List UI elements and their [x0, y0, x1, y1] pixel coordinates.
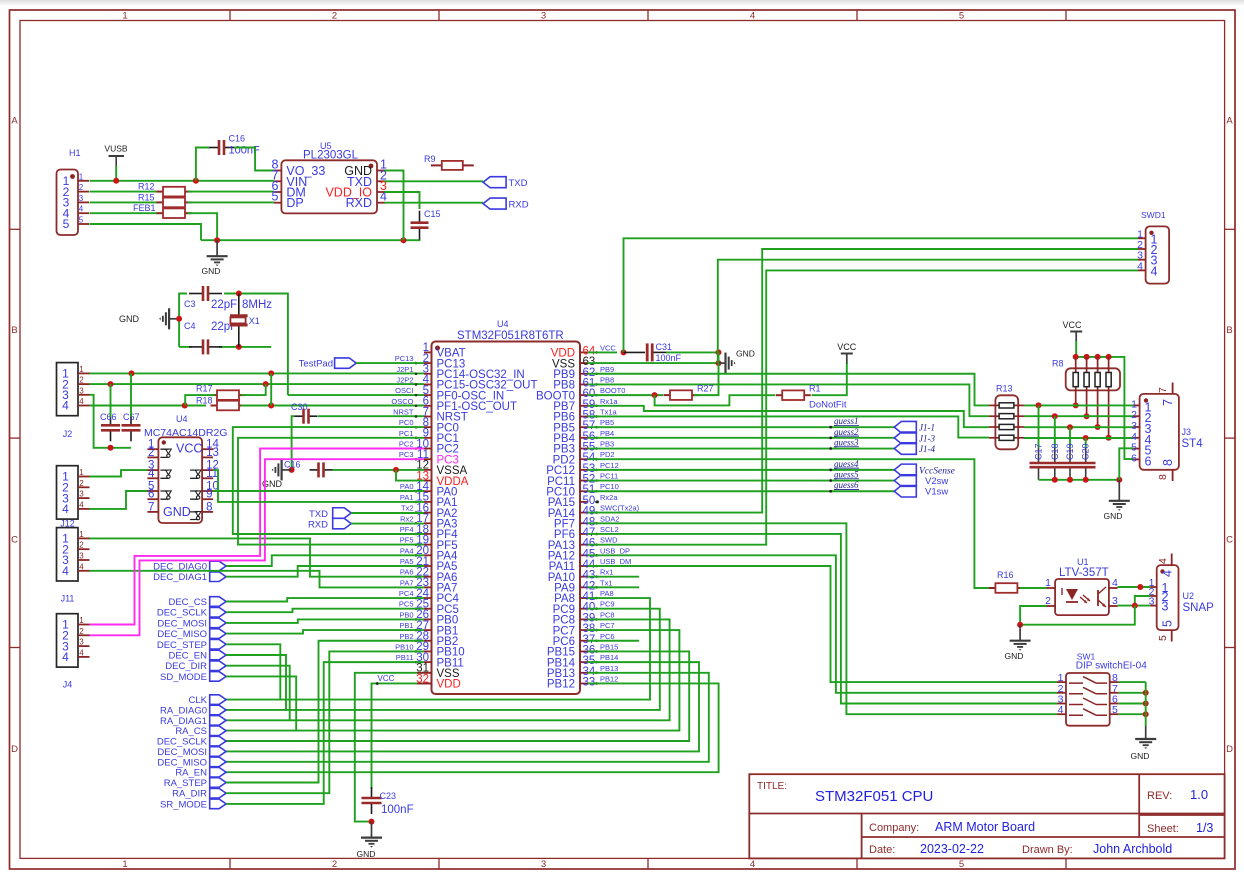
- junction cap rail j right: [1116, 477, 1122, 483]
- svg-text:C20: C20: [1081, 443, 1091, 460]
- wire bus pin38: [226, 630, 679, 731]
- svg-text:100nF: 100nF: [381, 804, 414, 816]
- wire J2.2 to MCU J2P2: [90, 383, 425, 385]
- wire VSS pin63: [588, 362, 719, 364]
- svg-text:4: 4: [1112, 577, 1118, 589]
- wire PB4 to flag: [588, 437, 895, 439]
- IC U1 LTV-357T: [1055, 579, 1109, 615]
- pin U4-9 PC1: [424, 437, 432, 439]
- pin U5 right 3: [377, 191, 385, 193]
- svg-text:BOOT0: BOOT0: [600, 386, 625, 395]
- svg-text:A: A: [11, 116, 18, 127]
- junction r8 bottom j2: [1084, 413, 1090, 419]
- svg-text:PC1: PC1: [399, 429, 414, 438]
- wire R13.2 to ST4.2: [1024, 415, 1134, 417]
- pin U2-1: [1150, 586, 1157, 588]
- frame row ticks left: [10, 228, 21, 230]
- svg-text:MC74AC14DR2G: MC74AC14DR2G: [144, 427, 227, 439]
- svg-text:RA_DIAG0: RA_DIAG0: [160, 705, 207, 716]
- pin U4-53 PC12: [580, 469, 588, 471]
- pin J12-3: [78, 497, 90, 499]
- resistor R17: [196, 384, 246, 400]
- svg-text:SCL2: SCL2: [600, 525, 619, 534]
- svg-text:2: 2: [79, 627, 84, 636]
- pin J2-1: [78, 372, 90, 374]
- svg-text:R9: R9: [424, 154, 436, 164]
- svg-text:1: 1: [79, 530, 84, 539]
- svg-text:PF4: PF4: [400, 525, 414, 534]
- svg-text:DEC_DIAG1: DEC_DIAG1: [153, 572, 207, 583]
- wire DEC_SCLK wire: [226, 609, 424, 612]
- svg-text:OSCI: OSCI: [395, 386, 413, 395]
- svg-text:ST4: ST4: [1182, 438, 1204, 450]
- svg-text:RXD: RXD: [509, 200, 529, 211]
- frame column ticks bottom: [229, 858, 231, 869]
- svg-text:J3: J3: [1182, 427, 1192, 437]
- pin U4-29 PB10: [424, 650, 432, 652]
- title block: [749, 774, 1224, 858]
- junction BOOT0 junction: [652, 392, 658, 398]
- junction r8 top j3: [1095, 354, 1101, 360]
- svg-text:R13: R13: [996, 384, 1013, 394]
- svg-text:TITLE:: TITLE:: [757, 781, 787, 792]
- svg-text:R1: R1: [809, 384, 821, 394]
- pin U4-51 PC10: [580, 490, 588, 492]
- svg-text:DEC_MISO: DEC_MISO: [157, 757, 207, 768]
- flag DEC_MISO: [210, 757, 226, 767]
- wire PC0 jog: [233, 427, 424, 534]
- svg-text:PC7: PC7: [600, 621, 615, 630]
- junction VCC C31 junction: [621, 349, 627, 355]
- wire J2.3 to cap rail: [90, 395, 132, 448]
- junction VUSB junction: [113, 178, 119, 184]
- capacitor C67: [122, 414, 141, 441]
- svg-text:J11: J11: [61, 594, 75, 604]
- pin J12-1: [78, 476, 90, 478]
- connector U2 SNAP: [1157, 565, 1179, 630]
- svg-text:4: 4: [79, 500, 84, 509]
- svg-text:PA0: PA0: [400, 482, 414, 491]
- svg-text:guess5: guess5: [834, 470, 859, 480]
- pin U4-45 PA12: [580, 554, 588, 556]
- wire bus pin40: [226, 609, 660, 710]
- pin J12-2: [78, 486, 90, 488]
- capacitor C16b: [310, 462, 333, 477]
- junction u2 j1: [1137, 584, 1143, 590]
- pin U4-48 PF7: [580, 522, 588, 524]
- flag DEC_DIAG1: [210, 572, 226, 582]
- svg-text:J1-1: J1-1: [919, 423, 935, 433]
- wire VDD pin32 to C23: [372, 683, 425, 789]
- flag DEC_EN: [210, 650, 226, 660]
- svg-text:U4: U4: [176, 414, 188, 424]
- ground GND vssa: [272, 459, 292, 480]
- pin J4-2: [78, 634, 90, 636]
- wire C31 right to GND: [666, 351, 719, 353]
- pin SW1-4: [1057, 713, 1066, 715]
- pin J4-3: [78, 645, 90, 647]
- capacitor C20: [1085, 438, 1087, 448]
- svg-text:PA4: PA4: [400, 546, 414, 555]
- wire row0 to flag: [588, 469, 895, 471]
- ground GND sw1: [1131, 726, 1157, 761]
- svg-text:PB8: PB8: [600, 375, 614, 384]
- wire DIAG0 to PA4: [226, 555, 424, 566]
- power VCC r8: [1062, 320, 1082, 342]
- pin U4-62 PB9: [580, 373, 588, 375]
- wire bus pin35: [226, 662, 699, 751]
- wire TestPad to PC13: [356, 362, 424, 364]
- svg-text:PB2: PB2: [399, 632, 413, 641]
- pin J2-2: [78, 383, 90, 385]
- wire RXD to Rx2: [351, 523, 424, 525]
- pin U4-3 PC14-OSC32_IN: [424, 373, 432, 375]
- capacitor C3: [189, 286, 222, 301]
- svg-text:V1sw: V1sw: [925, 487, 948, 498]
- svg-text:4: 4: [1161, 570, 1175, 577]
- pin U4-43 PA10: [580, 576, 588, 578]
- pin U4-18 PF4: [424, 533, 432, 535]
- wire SCL2 to SW1.3: [588, 534, 1058, 704]
- svg-text:VCC: VCC: [837, 342, 857, 352]
- svg-text:C30: C30: [291, 402, 308, 412]
- pin SWD1-4: [1138, 269, 1146, 271]
- svg-text:PB11: PB11: [396, 653, 414, 662]
- wire Rx1: [588, 576, 640, 578]
- pin U4-52 PC11: [580, 480, 588, 482]
- junction sw1 j2: [1143, 701, 1149, 707]
- wire bus pin41: [226, 598, 650, 700]
- svg-text:DEC_STEP: DEC_STEP: [157, 640, 207, 651]
- pin U4-6 PF1-OSC_OUT: [424, 405, 432, 407]
- svg-text:J4: J4: [63, 680, 73, 690]
- svg-text:VCC: VCC: [1062, 320, 1082, 330]
- svg-text:PA1: PA1: [400, 493, 414, 502]
- capacitor C66: [101, 414, 120, 441]
- wire R17 left: [185, 395, 215, 405]
- svg-text:SDA2: SDA2: [600, 514, 620, 523]
- flag RA_EN: [210, 767, 226, 777]
- svg-text:GND: GND: [1104, 511, 1123, 521]
- wire R12 to U5 DM: [188, 191, 274, 193]
- pin J3-7: [1172, 383, 1174, 394]
- wire SD_MODE wire: [226, 676, 296, 730]
- svg-text:C23: C23: [380, 791, 397, 801]
- junction J2P1 j1: [129, 370, 135, 376]
- flag J1-4: [894, 443, 916, 455]
- ground GND c23: [357, 822, 382, 859]
- flag DEC_SCLK: [210, 736, 226, 746]
- pin U4-16 PA2: [424, 512, 432, 514]
- wire VSS pin31 to gnd: [355, 673, 424, 822]
- pin U4inv-5: [147, 490, 158, 492]
- wire DIAG1 to PA5: [226, 566, 424, 577]
- junction gnd31 j2: [716, 360, 722, 366]
- pin U4-12 VSSA: [424, 469, 432, 471]
- pin U4-61 PB8: [580, 383, 588, 385]
- svg-text:SWD: SWD: [600, 536, 618, 545]
- pin U4-55 PB3: [580, 448, 588, 450]
- junction C16 left junction: [193, 178, 199, 184]
- svg-text:4: 4: [79, 562, 84, 571]
- svg-text:PB13: PB13: [600, 664, 618, 673]
- svg-text:3: 3: [79, 194, 84, 203]
- svg-text:3: 3: [79, 490, 84, 499]
- junction GND rail junction 2: [401, 237, 407, 243]
- svg-text:33: 33: [583, 676, 596, 688]
- pin U1-3: [1109, 605, 1118, 607]
- svg-text:2: 2: [332, 11, 337, 22]
- wire R17 right: [241, 384, 266, 395]
- wire U5 GND to rail: [385, 171, 404, 241]
- junction cap rail j: [1052, 477, 1058, 483]
- svg-text:SNAP: SNAP: [1183, 602, 1215, 614]
- svg-text:1: 1: [79, 172, 84, 181]
- svg-text:H1: H1: [69, 148, 81, 158]
- svg-text:OSCO: OSCO: [391, 397, 413, 406]
- svg-text:PC9: PC9: [600, 600, 615, 609]
- svg-text:CLK: CLK: [189, 695, 208, 706]
- svg-text:1: 1: [79, 616, 84, 625]
- pin U4inv-8: [202, 511, 213, 513]
- pin U4-24 PC4: [424, 597, 432, 599]
- flag V2sw: [894, 475, 916, 487]
- svg-text:PC11: PC11: [600, 472, 618, 481]
- wire R1 right to VCC: [812, 363, 847, 395]
- svg-text:DIP switchEI-04: DIP switchEI-04: [1076, 661, 1147, 672]
- wire Tx1a: [588, 416, 990, 437]
- wire bus pin36: [226, 651, 689, 741]
- pin J3-3: [1134, 426, 1140, 428]
- svg-text:J2: J2: [63, 429, 73, 439]
- resistor R15: [138, 192, 192, 207]
- svg-text:7: 7: [1161, 399, 1175, 406]
- flag DEC_MOSI: [210, 618, 226, 628]
- pin U4-21 PA5: [424, 565, 432, 567]
- svg-text:VUSB: VUSB: [104, 144, 127, 154]
- svg-text:R27: R27: [697, 384, 714, 394]
- wire R27 right: [694, 363, 719, 395]
- pin H1-5: [78, 223, 89, 225]
- pin J11-3: [78, 559, 90, 561]
- svg-text:DEC_MOSI: DEC_MOSI: [157, 747, 207, 758]
- wire PC1 jog: [238, 438, 424, 545]
- svg-text:C3: C3: [184, 299, 196, 309]
- capacitor C4: [189, 339, 222, 354]
- wire J11.1 to PA6: [90, 538, 425, 576]
- svg-text:J1-3: J1-3: [919, 433, 935, 443]
- wire gnd31 link: [718, 352, 720, 363]
- svg-text:3: 3: [79, 386, 84, 395]
- U1 optocoupler internals: [1062, 587, 1106, 607]
- svg-text:DEC_SCLK: DEC_SCLK: [157, 737, 208, 748]
- pin U4-63 VSS: [580, 362, 588, 364]
- junction xtal-osco junction: [268, 403, 274, 409]
- svg-text:U4: U4: [497, 319, 509, 329]
- wire PB8 to R13.2: [588, 384, 990, 416]
- svg-text:2: 2: [79, 479, 84, 488]
- junction r8 top j4: [1106, 354, 1112, 360]
- wire J12.4 to U4B.5: [90, 491, 148, 509]
- ground GND usb: [202, 240, 228, 276]
- connector SWD1: [1146, 226, 1170, 283]
- wire DEC_MOSI wire: [226, 619, 424, 623]
- pin U4-60 BOOT0: [580, 394, 588, 396]
- pin U4-5 PF0-OSC_IN: [424, 394, 432, 396]
- svg-text:Rx2: Rx2: [400, 514, 413, 523]
- pin H1-1: [78, 180, 89, 182]
- svg-text:DEC_MOSI: DEC_MOSI: [157, 618, 207, 629]
- capacitor C18: [1054, 416, 1056, 447]
- pin U1-1: [1047, 587, 1056, 589]
- wire TXD to Tx2: [351, 512, 424, 514]
- svg-text:C: C: [11, 535, 18, 546]
- pin U5 right 1: [377, 170, 385, 172]
- wire DEC_EN wire: [226, 655, 286, 710]
- junction J2P2 j1: [108, 381, 114, 387]
- pin U1-2: [1047, 605, 1056, 607]
- flag VccSense: [894, 464, 916, 476]
- wire SW1.8 wire: [1119, 681, 1146, 683]
- wire PB5 to flag: [588, 426, 895, 428]
- wire R13.3 to ST4.3: [1024, 426, 1134, 428]
- wire C16b to VSSA: [333, 469, 425, 471]
- wire BOOT0 to R1: [655, 395, 775, 405]
- capacitor C16: [209, 140, 234, 155]
- gate glyph: [160, 491, 168, 499]
- IC U4 STM32F051R8T6TR: [432, 342, 581, 695]
- svg-text:U1: U1: [1077, 557, 1089, 567]
- svg-text:PB9: PB9: [600, 365, 614, 374]
- svg-text:C66: C66: [100, 412, 117, 422]
- svg-text:4: 4: [1058, 704, 1064, 716]
- wire VDDA jog: [396, 470, 424, 481]
- flag RA_DIR: [210, 788, 226, 798]
- pin SW1-8: [1110, 681, 1119, 683]
- junction u2 j2: [1132, 603, 1138, 609]
- wire J4.2 pink: [90, 459, 425, 635]
- resistor R1: [776, 384, 821, 401]
- wire VCC up to SWD1: [624, 238, 1139, 352]
- pin J4-1: [78, 624, 90, 626]
- svg-text:RXD: RXD: [346, 196, 372, 210]
- capacitor C23: [362, 787, 382, 814]
- wire SW1 gnd vertical: [1145, 682, 1147, 726]
- svg-text:4: 4: [750, 859, 755, 870]
- pin SW1-1: [1057, 681, 1066, 683]
- svg-text:4: 4: [1137, 260, 1143, 272]
- svg-text:R15: R15: [138, 192, 155, 202]
- svg-text:4: 4: [1157, 558, 1169, 564]
- resistor R8.1: [1075, 357, 1077, 373]
- pin U4-28 PB2: [424, 640, 432, 642]
- wire U5 TXD to flag: [385, 180, 484, 182]
- svg-text:DEC_CS: DEC_CS: [168, 597, 207, 608]
- svg-text:PA8: PA8: [600, 589, 614, 598]
- svg-text:guess3: guess3: [834, 438, 859, 448]
- svg-text:3: 3: [1112, 595, 1118, 607]
- wire SW1.6 wire: [1119, 703, 1146, 705]
- flag TXD: [483, 177, 506, 188]
- frame row ticks right: [1225, 228, 1235, 230]
- pin U4-27 PB1: [424, 629, 432, 631]
- svg-text:C16: C16: [284, 460, 301, 470]
- wire OSCI row: [288, 394, 424, 396]
- pin U4-47 PF6: [580, 533, 588, 535]
- svg-text:2: 2: [332, 859, 337, 870]
- resistor R12: [138, 182, 192, 197]
- ground GND st4: [1104, 480, 1130, 521]
- wire SDA2 to SW1.4: [588, 523, 1058, 714]
- flag J1-3: [894, 432, 916, 444]
- pin U4-31 VSS: [424, 672, 432, 674]
- svg-text:Sheet:: Sheet:: [1147, 823, 1179, 835]
- resistor R13.1: [989, 404, 999, 406]
- svg-text:GND: GND: [163, 505, 191, 519]
- switch element 3: [1069, 698, 1107, 705]
- svg-text:C: C: [1226, 535, 1233, 546]
- pin U4-36 PB15: [580, 650, 588, 652]
- pin U4-8 PC0: [424, 426, 432, 428]
- power VCC r1: [837, 342, 857, 364]
- pin U2-5: [1171, 630, 1173, 641]
- wire USB_DM to SW1.1: [588, 566, 1058, 682]
- pin U4inv-1: [147, 448, 158, 450]
- junction r8 top j2: [1084, 354, 1090, 360]
- wire SR_MODE wire: [226, 662, 424, 804]
- svg-text:X1: X1: [249, 316, 260, 326]
- IC U4 MC74AC14DR2G: [158, 437, 202, 523]
- wire C66 top: [110, 384, 112, 417]
- svg-text:PB10: PB10: [395, 642, 413, 651]
- svg-text:5: 5: [959, 11, 964, 22]
- svg-text:V2sw: V2sw: [925, 476, 948, 487]
- svg-text:VccSense: VccSense: [919, 466, 955, 476]
- resistor network R13: [995, 395, 1018, 449]
- wire U1.4 to U2.1: [1118, 586, 1151, 588]
- junction vdda tap: [393, 467, 399, 473]
- pin SWD1-1: [1138, 237, 1146, 239]
- wire RA_STEP wire: [226, 641, 424, 783]
- wire XTAL bottom: [179, 346, 192, 348]
- svg-text:USB_DM: USB_DM: [600, 557, 631, 566]
- wire USB_DP to SW1.2: [588, 555, 1058, 692]
- svg-text:1: 1: [79, 468, 84, 477]
- wire J2.4 to R18: [90, 405, 207, 407]
- svg-text:PB12: PB12: [600, 674, 618, 683]
- flag RA_DIAG1: [210, 716, 226, 726]
- pin H1-2: [78, 191, 89, 193]
- pin U4-54 PD2: [580, 458, 588, 460]
- junction XTAL bottom junction: [236, 344, 242, 350]
- connector H1: [57, 170, 79, 236]
- svg-text:Drawn By:: Drawn By:: [1022, 844, 1073, 856]
- junction GND rail junction 1: [214, 237, 220, 243]
- capacitor C17: [1038, 405, 1040, 447]
- connector J3 ST4: [1140, 394, 1179, 470]
- svg-text:2: 2: [79, 376, 84, 385]
- flag SD_MODE: [210, 672, 226, 682]
- svg-text:PB5: PB5: [600, 418, 614, 427]
- wire DEC_STEP wire: [226, 644, 280, 699]
- svg-text:R12: R12: [138, 182, 155, 192]
- svg-text:RA_STEP: RA_STEP: [164, 778, 207, 789]
- svg-text:SWC(Tx2a): SWC(Tx2a): [600, 504, 640, 513]
- svg-text:C31: C31: [656, 342, 673, 352]
- pin J3-5: [1134, 448, 1140, 450]
- svg-text:100nF: 100nF: [656, 353, 682, 363]
- pin SWD1-3: [1138, 259, 1146, 261]
